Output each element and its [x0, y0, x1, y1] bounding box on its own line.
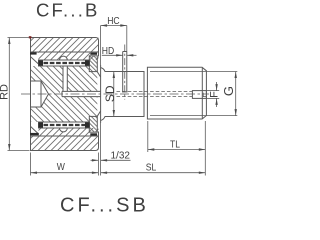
svg-text:1/32: 1/32	[111, 151, 131, 162]
svg-text:RD: RD	[0, 84, 11, 100]
svg-text:SD: SD	[103, 85, 117, 102]
svg-text:CF...SB: CF...SB	[60, 195, 149, 217]
svg-text:F: F	[209, 91, 221, 98]
svg-text:CF...B: CF...B	[36, 0, 100, 20]
svg-text:HC: HC	[107, 15, 119, 27]
svg-text:HD: HD	[102, 45, 114, 57]
svg-text:W: W	[57, 161, 66, 173]
svg-text:G: G	[221, 86, 236, 96]
svg-text:TL: TL	[170, 139, 181, 151]
svg-text:SL: SL	[146, 162, 157, 174]
